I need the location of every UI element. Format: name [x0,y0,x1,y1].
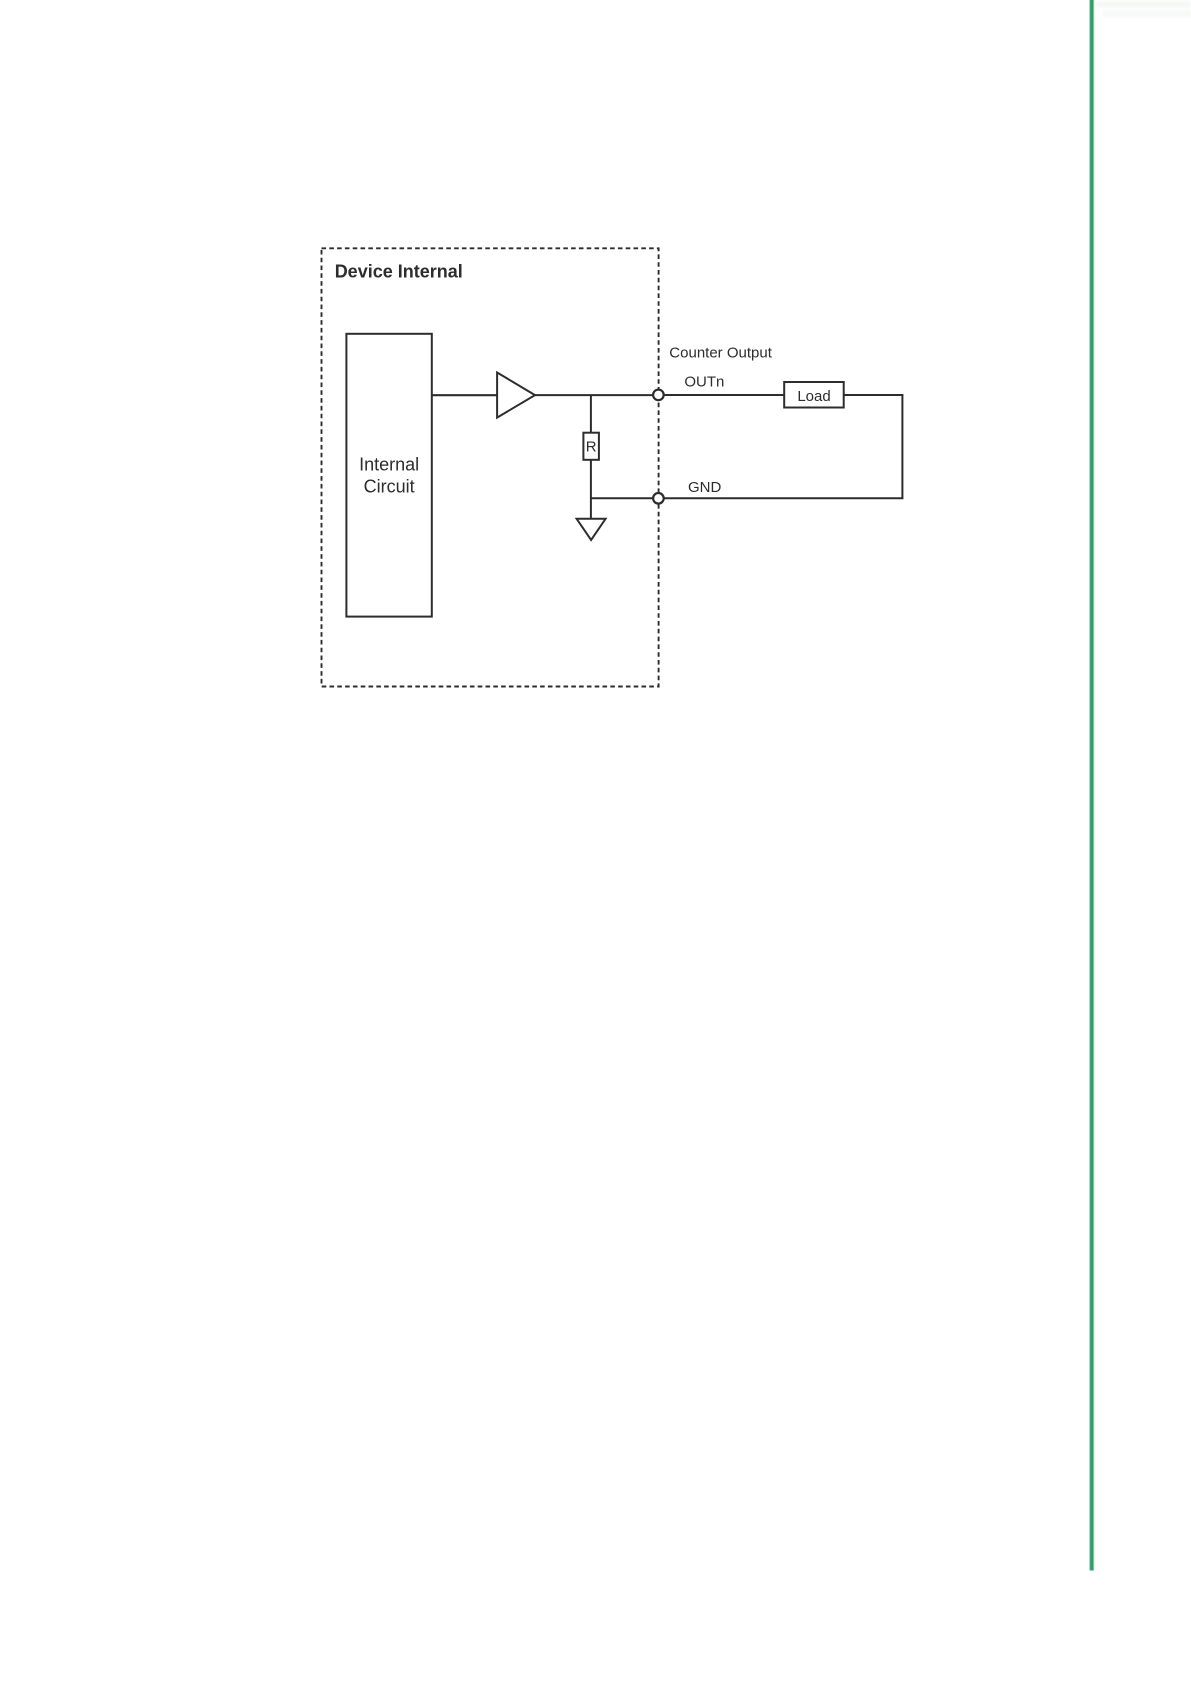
svg-text:OUTn: OUTn [684,374,724,391]
wire: internal circuit output to buffer input [432,394,498,396]
svg-text:Load: Load [797,388,830,405]
wire: OUTn terminal to Load [664,394,785,396]
wire: pull-down stub from output node to resistor R [590,395,592,433]
svg-text:Device Internal: Device Internal [335,261,463,281]
wire: return path vertical [901,395,903,498]
block: Internal Circuit U1 [346,334,431,617]
terminal node OUTn (open circle) [653,390,664,401]
dashed enclosure: Device Internal [322,248,659,686]
terminal node GND (open circle) [653,493,664,504]
wire: buffer output to OUTn terminal [535,394,653,396]
wire: resistor R to ground node [590,460,592,519]
green page margin rule [1089,0,1095,1571]
load resistor (Load box) [784,382,844,408]
wire: Load to return corner [844,394,904,396]
svg-text:R: R [586,439,597,456]
svg-text:Counter Output: Counter Output [669,345,772,362]
svg-text:Circuit: Circuit [364,477,415,497]
ground symbol [577,519,606,540]
buffer U2 (triangle driver) [497,373,535,418]
resistor R [583,433,599,460]
svg-text:Internal: Internal [359,455,419,475]
wire: return path to GND terminal [664,497,904,499]
wire: ground node to GND terminal [591,497,653,499]
svg-text:GND: GND [688,479,722,496]
faint header ghost top-right [1096,1,1191,17]
